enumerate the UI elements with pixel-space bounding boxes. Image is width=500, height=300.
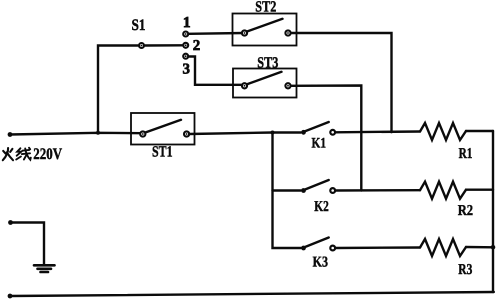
node 2: selector contact 2 <box>183 43 188 48</box>
wire: ST3 output down to K2 row <box>291 86 362 191</box>
svg-text:2: 2 <box>193 38 201 54</box>
wire: K1 to R1 <box>335 130 420 133</box>
svg-text:S1: S1 <box>132 17 146 34</box>
wire: S1 to selector common <box>145 44 182 47</box>
node: junction to K2/K3 branch <box>271 131 275 135</box>
switch ST2 (boxed) <box>233 14 297 46</box>
switch K3 <box>301 238 335 251</box>
label 火线 220V : 线 drawn as paths <box>16 148 31 160</box>
node 1: selector contact 1 <box>183 32 188 37</box>
svg-text:1: 1 <box>183 15 191 31</box>
svg-text:3: 3 <box>182 61 190 77</box>
wire: K2 to R2 <box>335 189 420 192</box>
node: earth branch terminal <box>8 220 13 225</box>
wire: bottom neutral line <box>10 292 494 296</box>
svg-text:ST2: ST2 <box>255 0 276 15</box>
wire: ST1 output to K1 <box>189 133 301 135</box>
node: R3/bus junction <box>491 245 496 250</box>
node 3: selector contact 3 <box>183 54 188 59</box>
resistor R1 <box>420 123 466 140</box>
wire: vertical riser to S1 <box>98 46 138 133</box>
label 火线 220V (live wire) : 火 drawn as paths <box>3 148 13 160</box>
wire: R3 to right bus <box>466 246 493 249</box>
svg-text:K2: K2 <box>314 199 329 215</box>
svg-text:ST1: ST1 <box>152 144 173 161</box>
wire: vertical drop to K2 and K3 <box>273 133 301 249</box>
wire: stub to K2 <box>273 189 301 191</box>
switch ST1 (boxed) <box>131 113 195 145</box>
svg-text:R3: R3 <box>458 262 472 278</box>
wire: R1 to right bus <box>466 130 493 132</box>
wire: R2 to right bus <box>466 188 493 190</box>
resistor R3 <box>420 239 466 256</box>
wire: contact 3 to ST3 <box>189 57 245 85</box>
svg-text:K1: K1 <box>312 136 327 152</box>
node: bottom-left terminal <box>8 294 13 299</box>
resistor R2 <box>420 182 466 199</box>
node: live-wire input terminal <box>8 132 13 137</box>
wire: ST2 output to main node <box>291 33 392 132</box>
node: junction to S1 branch <box>96 131 100 135</box>
switch S1 contact <box>139 43 144 48</box>
switch K1 <box>301 122 335 135</box>
svg-text:220V: 220V <box>33 146 62 163</box>
wire: contact 1 to ST2 <box>189 32 244 35</box>
svg-text:R2: R2 <box>458 203 473 219</box>
ground symbol <box>34 265 55 272</box>
wire: earth branch <box>11 223 45 265</box>
svg-text:R1: R1 <box>459 146 473 162</box>
wire: right return bus <box>492 131 494 292</box>
svg-text:ST3: ST3 <box>257 55 278 72</box>
svg-text:K3: K3 <box>313 255 328 271</box>
wire: main live wire left segment <box>10 133 143 135</box>
switch K2 <box>301 180 335 193</box>
wire: K3 to R3 <box>335 246 420 249</box>
switch ST3 (boxed) <box>233 69 297 98</box>
